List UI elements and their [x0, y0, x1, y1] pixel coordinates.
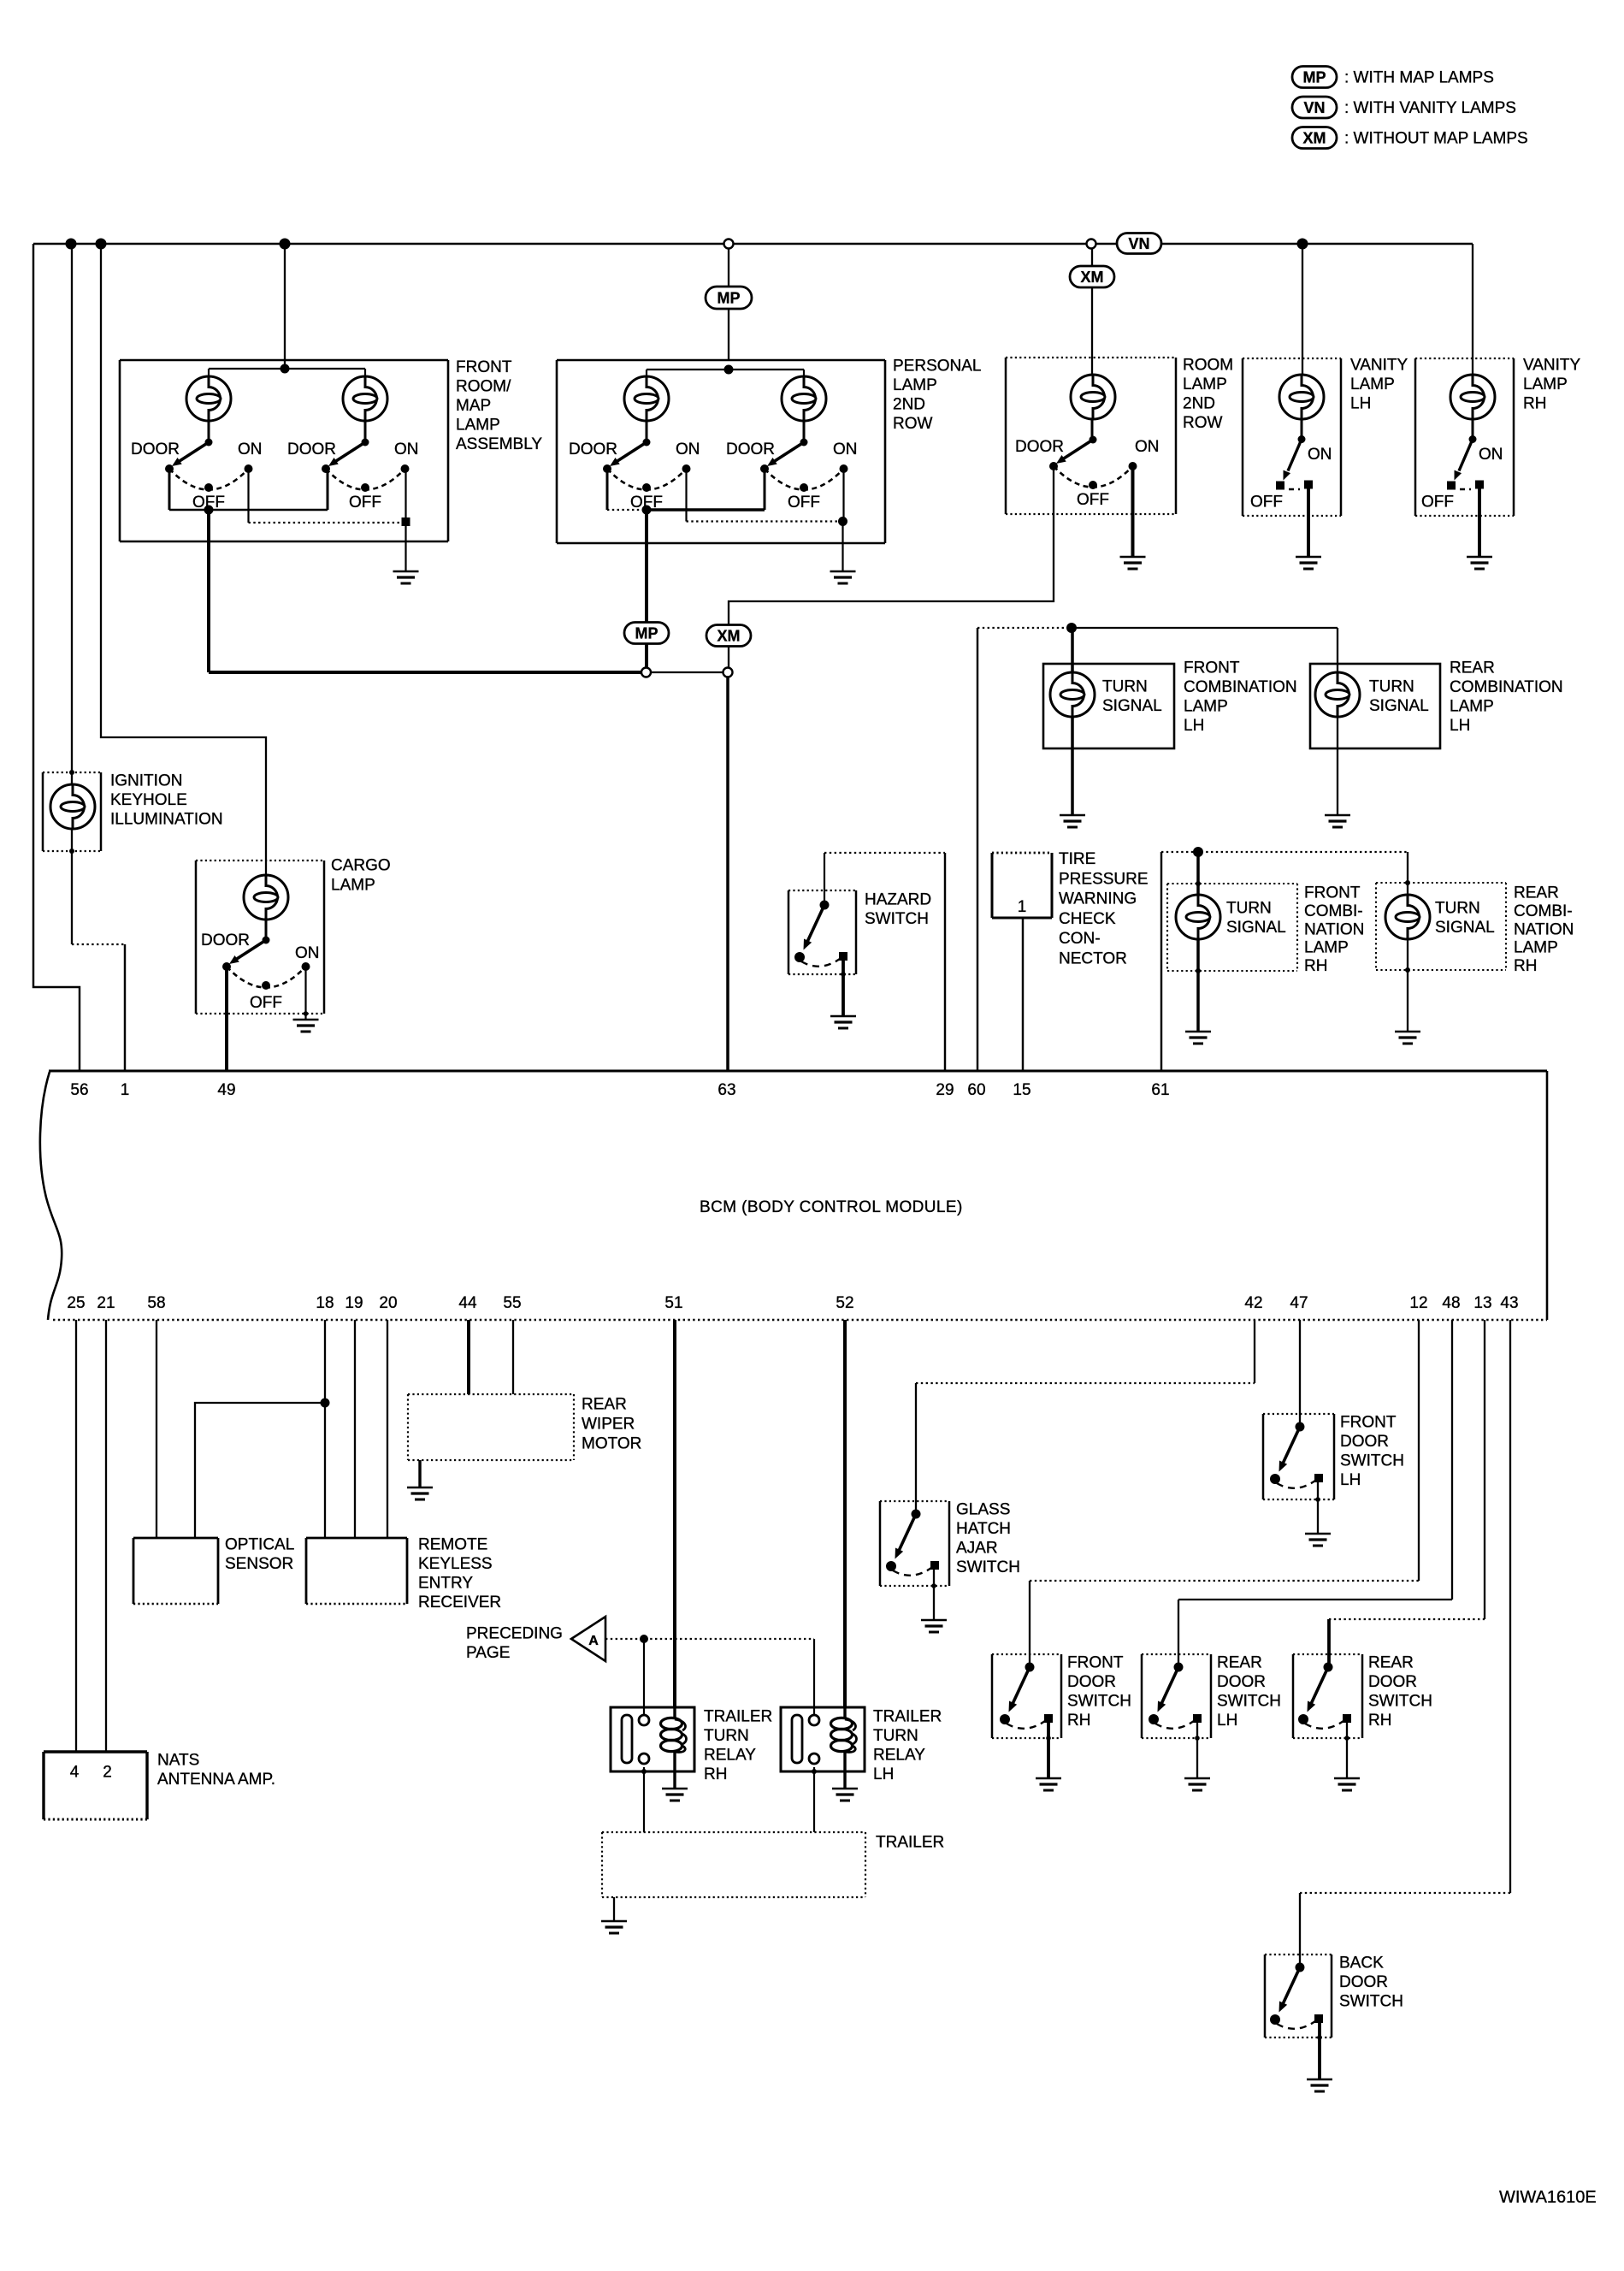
svg-text:OPTICALSENSOR: OPTICALSENSOR [225, 1536, 294, 1574]
svg-text:VN: VN [1303, 99, 1325, 116]
svg-text:XM: XM [1303, 130, 1326, 147]
svg-text:OFF: OFF [1421, 494, 1454, 512]
svg-text:MP: MP [718, 290, 741, 307]
svg-text:DOOR: DOOR [569, 441, 617, 458]
svg-text:12: 12 [1409, 1294, 1427, 1312]
svg-text:MP: MP [1303, 69, 1326, 86]
svg-text:ON: ON [1135, 438, 1160, 456]
svg-text:20: 20 [379, 1294, 397, 1312]
svg-text:A: A [588, 1634, 599, 1648]
svg-text:63: 63 [718, 1081, 735, 1099]
svg-text:: WITHOUT MAP LAMPS: : WITHOUT MAP LAMPS [1344, 130, 1528, 148]
svg-text:4: 4 [70, 1764, 80, 1782]
svg-text:DOOR: DOOR [287, 441, 336, 458]
svg-text:44: 44 [458, 1294, 477, 1312]
svg-text:ON: ON [295, 944, 320, 962]
svg-text:OFF: OFF [349, 494, 381, 512]
svg-text:13: 13 [1473, 1294, 1491, 1312]
svg-text:XM: XM [718, 628, 741, 645]
svg-text:21: 21 [97, 1294, 115, 1312]
svg-text:VN: VN [1128, 235, 1149, 252]
svg-text:ON: ON [1479, 446, 1503, 464]
svg-text:MP: MP [635, 625, 658, 642]
svg-text:61: 61 [1151, 1081, 1169, 1099]
svg-text:1: 1 [1018, 898, 1027, 916]
svg-text:47: 47 [1290, 1294, 1308, 1312]
svg-text:TRAILER: TRAILER [876, 1834, 944, 1852]
svg-text:HAZARDSWITCH: HAZARDSWITCH [865, 891, 931, 929]
svg-text:OFF: OFF [192, 494, 225, 512]
svg-text:2: 2 [103, 1764, 112, 1782]
svg-text:49: 49 [217, 1081, 235, 1099]
svg-text:OFF: OFF [788, 494, 820, 512]
svg-text:52: 52 [836, 1294, 853, 1312]
svg-text:25: 25 [67, 1294, 85, 1312]
svg-text:DOOR: DOOR [131, 441, 180, 458]
svg-text:OFF: OFF [250, 994, 282, 1012]
svg-text:: WITH VANITY LAMPS: : WITH VANITY LAMPS [1344, 99, 1516, 117]
svg-text:15: 15 [1013, 1081, 1031, 1099]
svg-text:BCM (BODY CONTROL MODULE): BCM (BODY CONTROL MODULE) [700, 1198, 963, 1216]
svg-text:DOOR: DOOR [726, 441, 775, 458]
svg-text:OFF: OFF [1077, 491, 1109, 509]
svg-text:19: 19 [345, 1294, 363, 1312]
svg-text:43: 43 [1500, 1294, 1518, 1312]
svg-text:DOOR: DOOR [1015, 438, 1064, 456]
svg-text:18: 18 [316, 1294, 334, 1312]
svg-text:60: 60 [967, 1081, 985, 1099]
svg-text:: WITH MAP LAMPS: : WITH MAP LAMPS [1344, 69, 1494, 87]
svg-text:ON: ON [676, 441, 700, 458]
svg-text:56: 56 [70, 1081, 88, 1099]
svg-text:1: 1 [121, 1081, 130, 1099]
svg-text:55: 55 [503, 1294, 521, 1312]
svg-text:ON: ON [1308, 446, 1332, 464]
svg-text:ON: ON [394, 441, 419, 458]
svg-text:48: 48 [1442, 1294, 1460, 1312]
svg-text:ON: ON [833, 441, 858, 458]
svg-text:51: 51 [664, 1294, 682, 1312]
svg-text:ON: ON [238, 441, 263, 458]
svg-text:58: 58 [147, 1294, 165, 1312]
svg-text:XM: XM [1081, 269, 1104, 286]
svg-text:42: 42 [1244, 1294, 1262, 1312]
svg-text:29: 29 [936, 1081, 954, 1099]
svg-text:WIWA1610E: WIWA1610E [1499, 2188, 1597, 2207]
svg-text:DOOR: DOOR [201, 931, 250, 949]
svg-text:OFF: OFF [1250, 494, 1283, 512]
svg-text:OFF: OFF [630, 494, 663, 512]
